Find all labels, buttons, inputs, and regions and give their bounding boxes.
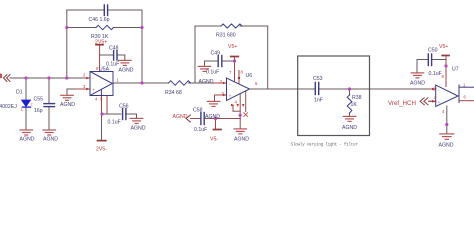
svg-text:U5A: U5A [99,67,110,73]
svg-text:AGND: AGND [119,68,134,74]
svg-text:C53: C53 [313,76,323,82]
svg-text:2V5-: 2V5- [96,147,107,153]
svg-text:U6: U6 [246,73,253,79]
svg-text:V5-: V5- [210,137,218,143]
svg-text:2: 2 [31,103,33,107]
svg-text:2V5+: 2V5+ [95,40,107,46]
svg-text:V5+: V5+ [228,44,237,50]
svg-text:0.1uF: 0.1uF [108,120,121,126]
svg-text:0.1uF: 0.1uF [429,71,442,77]
svg-text:AGND: AGND [410,81,425,87]
svg-text:H4002EJ: H4002EJ [0,104,17,110]
svg-text:0.1uF: 0.1uF [194,127,207,133]
svg-text:1K: 1K [351,102,358,108]
svg-text:Slowly varying light - filter: Slowly varying light - filter [291,143,359,148]
svg-text:C49: C49 [211,51,221,57]
svg-text:AGND: AGND [199,79,214,85]
svg-text:C48: C48 [109,46,119,52]
svg-text:C56: C56 [119,104,129,110]
svg-text:C50: C50 [428,48,438,54]
svg-text:C55: C55 [34,97,44,103]
svg-text:R38: R38 [352,95,362,101]
svg-text:AGND: AGND [342,125,357,131]
svg-text:AGND: AGND [173,114,188,120]
svg-text:AGND: AGND [131,126,146,132]
svg-text:AGND: AGND [234,137,249,143]
svg-text:16p: 16p [34,108,43,114]
svg-text:AGND: AGND [20,137,35,143]
svg-text:0.1uF: 0.1uF [206,70,219,76]
svg-text:1nF: 1nF [314,98,323,104]
svg-text:R31 680: R31 680 [216,33,236,39]
svg-text:D1: D1 [16,90,23,96]
svg-text:R34 68: R34 68 [165,90,182,96]
svg-text:AGND: AGND [43,137,58,143]
svg-text:C58: C58 [193,108,203,114]
svg-text:U7: U7 [452,67,459,73]
svg-text:AGND: AGND [439,143,454,149]
svg-text:AGND: AGND [60,102,75,108]
svg-text:C46 1.6p: C46 1.6p [89,17,110,23]
svg-text:AGND: AGND [205,114,220,120]
svg-text:Vref_HCH: Vref_HCH [388,100,416,107]
svg-text:V5+: V5+ [439,44,448,50]
